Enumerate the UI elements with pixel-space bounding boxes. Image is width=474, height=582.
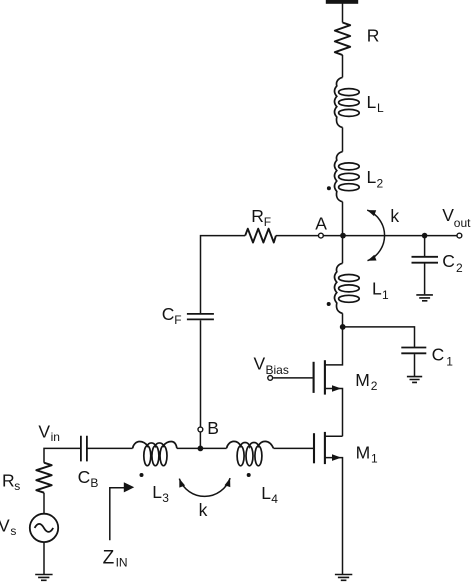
polarity dot L4 xyxy=(247,473,251,477)
source Vs xyxy=(30,514,58,542)
wire L1 to junction xyxy=(342,313,344,327)
svg-text:L: L xyxy=(152,482,162,502)
capacitor C2 xyxy=(412,236,439,295)
svg-text:k: k xyxy=(390,206,399,226)
svg-text:L: L xyxy=(261,483,271,503)
svg-text:in: in xyxy=(51,430,60,444)
wire RF to node A xyxy=(276,235,319,237)
junction node A rail xyxy=(340,233,346,239)
svg-text:A: A xyxy=(315,213,327,233)
junction C2 tap xyxy=(422,233,428,239)
wire Rs to Vs xyxy=(43,493,45,514)
svg-text:1: 1 xyxy=(371,452,378,466)
ground Vs xyxy=(35,575,52,581)
inductor L4 xyxy=(227,441,274,465)
wire CF to node B xyxy=(200,320,202,427)
svg-text:L: L xyxy=(377,101,384,115)
svg-text:M: M xyxy=(355,370,370,390)
svg-text:1: 1 xyxy=(446,355,453,369)
svg-text:1: 1 xyxy=(382,288,389,302)
svg-text:V: V xyxy=(442,205,454,225)
svg-text:2: 2 xyxy=(456,261,463,275)
svg-text:F: F xyxy=(174,313,181,327)
svg-text:3: 3 xyxy=(162,491,169,505)
ground C1 xyxy=(407,377,422,383)
resistor R xyxy=(335,23,350,56)
wire LL to L2 xyxy=(342,127,344,151)
svg-text:s: s xyxy=(14,479,20,493)
svg-text:4: 4 xyxy=(271,492,278,506)
wire node A to Vout xyxy=(323,235,457,237)
VDD supply bar xyxy=(326,0,358,4)
svg-text:B: B xyxy=(90,476,98,490)
svg-text:C: C xyxy=(442,251,455,271)
feedback wire corner to CF xyxy=(201,236,246,314)
terminal VBias xyxy=(268,376,273,381)
node B open circle xyxy=(198,427,203,432)
junction node B xyxy=(198,446,204,452)
resistor Rs xyxy=(36,463,51,493)
svg-text:R: R xyxy=(2,470,15,490)
inductor L1 xyxy=(335,263,360,313)
svg-text:s: s xyxy=(10,524,16,538)
wire L3 to L4 through node B xyxy=(177,447,227,449)
ground C2 xyxy=(416,295,433,301)
polarity dot L1 xyxy=(327,302,331,306)
svg-text:out: out xyxy=(454,216,471,230)
capacitor CF xyxy=(187,314,214,320)
svg-text:Z: Z xyxy=(103,548,115,569)
wire Vs to ground xyxy=(43,542,45,574)
svg-text:IN: IN xyxy=(116,555,128,569)
transistor M2 xyxy=(273,327,342,436)
wire L4 to M1 gate xyxy=(274,447,314,449)
svg-text:V: V xyxy=(254,353,266,373)
svg-text:Bias: Bias xyxy=(266,363,289,377)
polarity dot L3 xyxy=(140,473,144,477)
inductor LL xyxy=(335,77,360,127)
coupling arrow k L2-L1 xyxy=(367,210,384,261)
resistor RF xyxy=(245,229,276,243)
svg-text:F: F xyxy=(264,215,271,229)
svg-text:C: C xyxy=(78,467,91,487)
inductor L3 xyxy=(133,442,177,466)
svg-text:C: C xyxy=(162,304,175,324)
coupling arrow k L3-L4 xyxy=(179,478,230,496)
terminal Vout xyxy=(457,233,462,238)
ground M1 source xyxy=(335,575,352,581)
junction C1/M2 xyxy=(340,324,346,330)
wire L2 to L1 through node A xyxy=(342,202,344,264)
capacitor CB xyxy=(81,436,87,462)
wire VDD to R xyxy=(342,4,344,23)
wire node B to input line xyxy=(199,432,201,449)
svg-text:R: R xyxy=(367,25,380,45)
svg-text:V: V xyxy=(0,515,10,535)
svg-text:B: B xyxy=(207,418,219,438)
polarity dot L2 xyxy=(327,186,331,190)
transistor M1 xyxy=(314,432,343,574)
svg-text:k: k xyxy=(199,500,208,520)
svg-text:M: M xyxy=(356,442,371,462)
svg-text:L: L xyxy=(372,279,382,299)
input corner wire xyxy=(44,448,81,462)
svg-text:R: R xyxy=(251,206,264,226)
svg-text:L: L xyxy=(367,92,377,112)
svg-text:2: 2 xyxy=(371,379,378,393)
wire CB to L3 xyxy=(87,447,133,449)
inductor L2 xyxy=(335,152,360,202)
capacitor C1 xyxy=(401,348,426,377)
wire junction to C1 xyxy=(343,327,415,347)
svg-text:2: 2 xyxy=(377,176,384,190)
svg-text:V: V xyxy=(38,422,50,442)
wire R to LL xyxy=(342,55,344,77)
svg-text:C: C xyxy=(432,344,445,364)
impedance arrow ZIN xyxy=(110,482,134,540)
svg-text:L: L xyxy=(367,167,377,187)
node A open circle xyxy=(319,233,324,238)
